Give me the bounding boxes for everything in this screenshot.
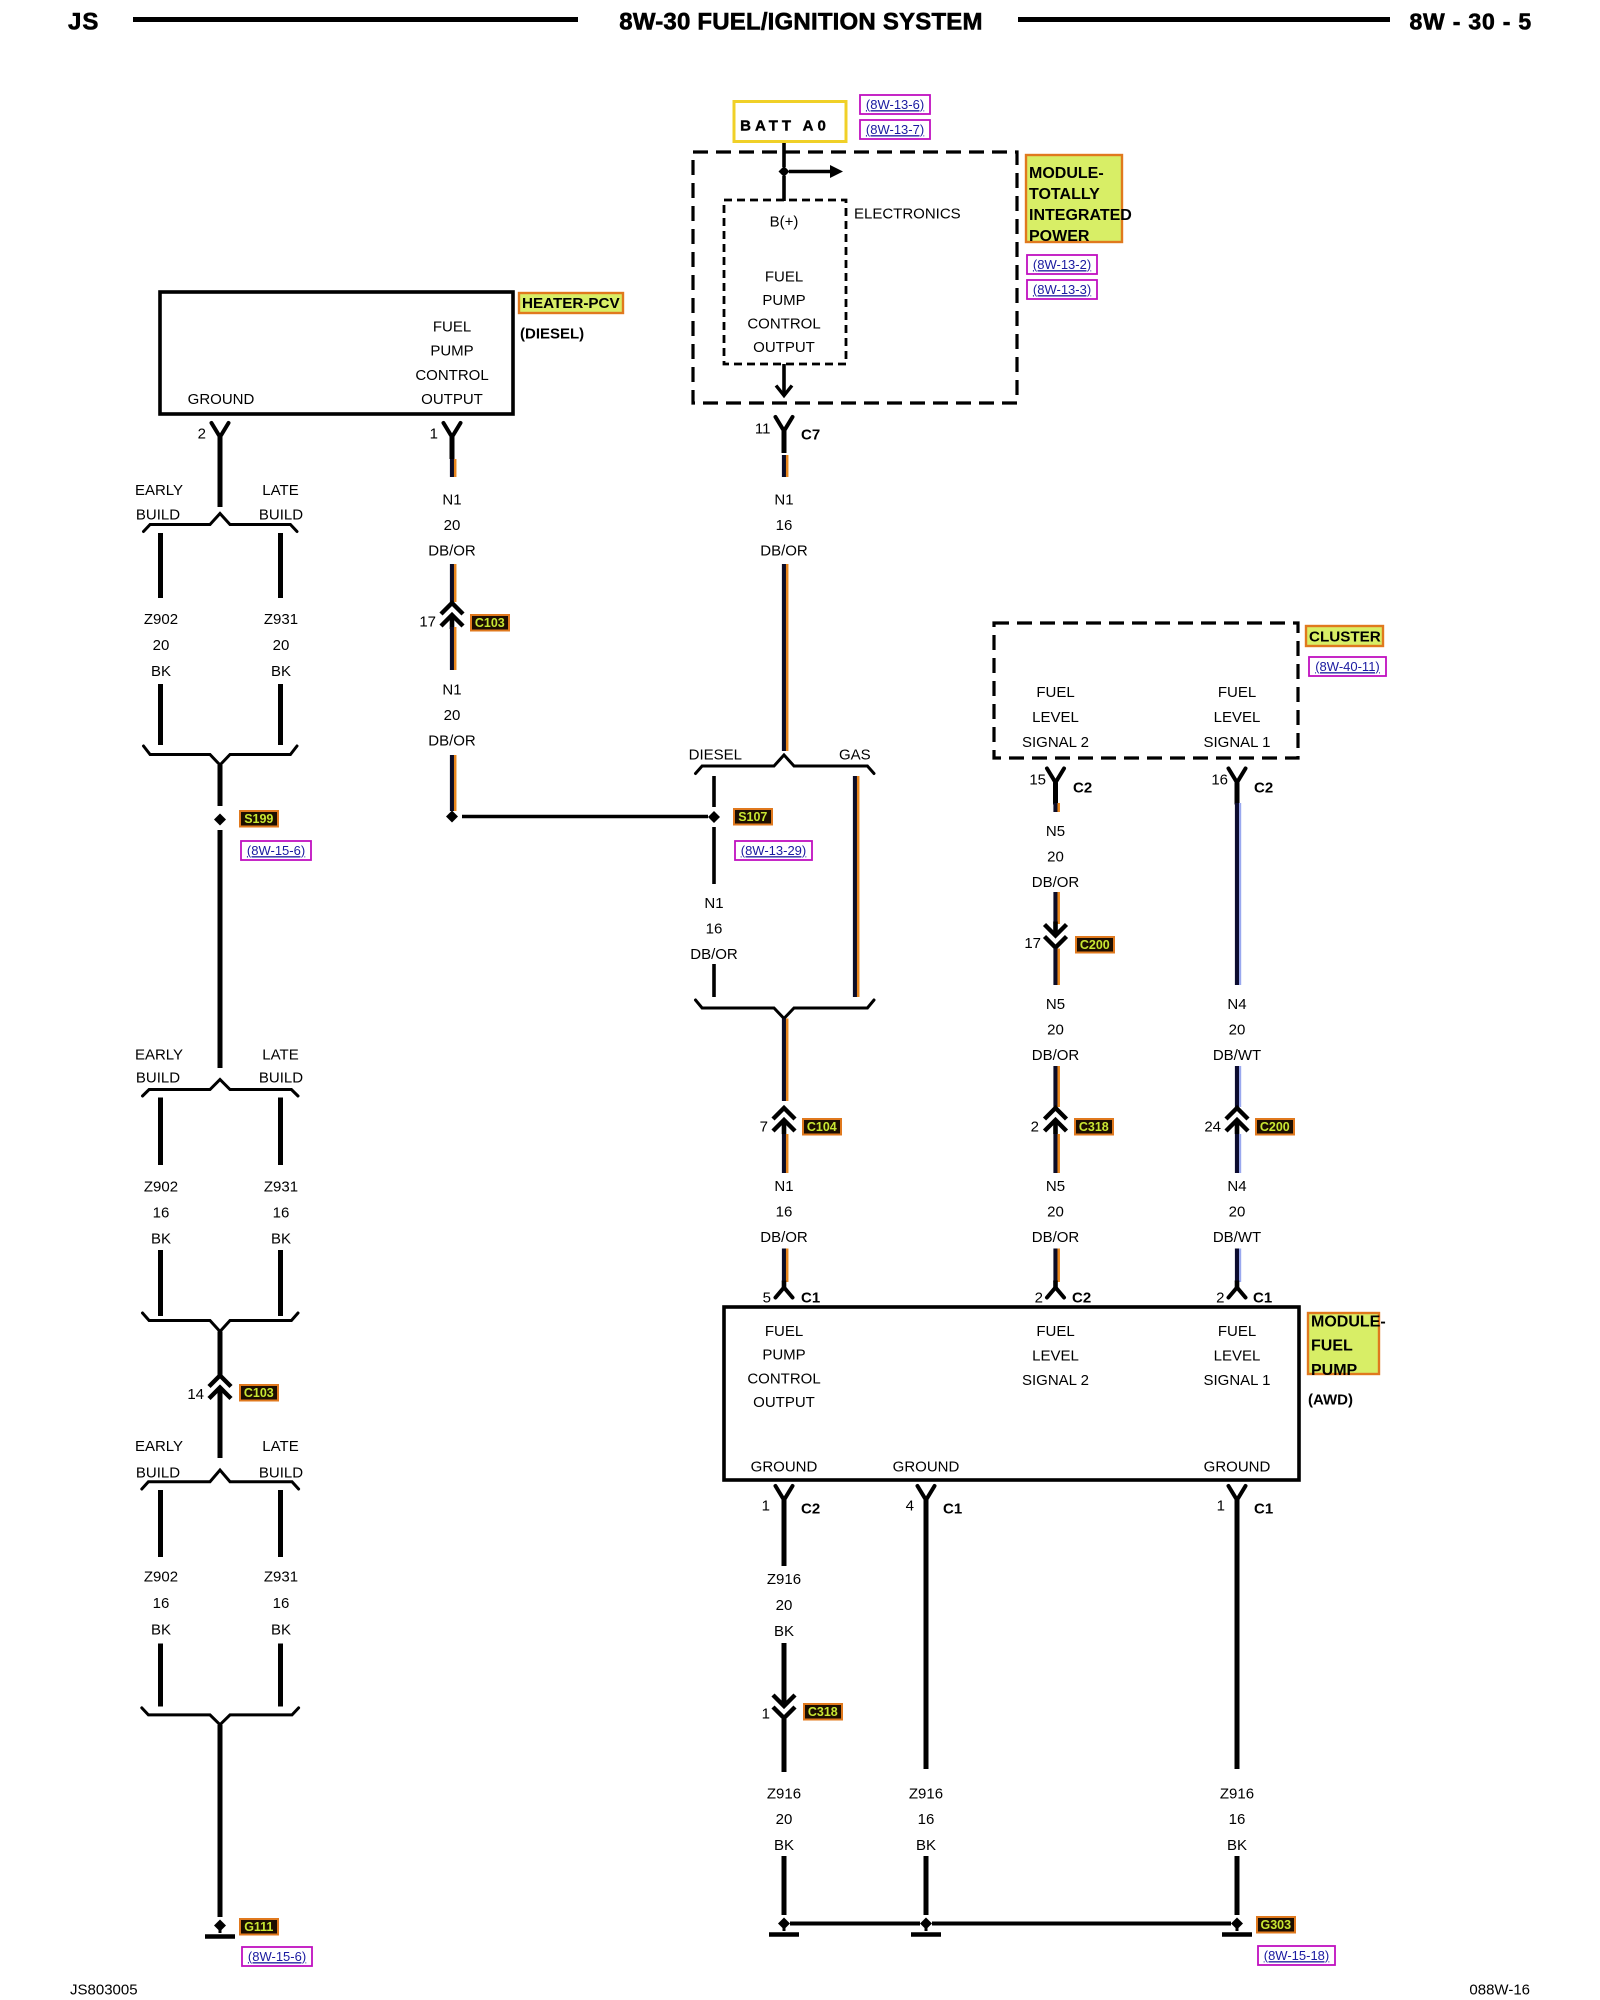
svg-text:DB/WT: DB/WT [1213,1229,1261,1246]
svg-text:GROUND: GROUND [751,1458,818,1475]
svg-text:BK: BK [271,663,291,680]
wire gas branch [853,776,857,997]
svg-text:16: 16 [1211,771,1228,788]
connector pin 2 C2 into fuel pump module [1047,1288,1064,1298]
wire merge to connector C104 [782,1019,786,1102]
svg-text:16: 16 [273,1595,290,1612]
svg-text:JS803005: JS803005 [70,1981,138,1998]
svg-text:SIGNAL 1: SIGNAL 1 [1204,1372,1271,1389]
svg-text:BK: BK [271,1622,291,1639]
svg-text:S199: S199 [244,812,273,826]
svg-text:LEVEL: LEVEL [1214,709,1261,726]
svg-text:7: 7 [760,1118,768,1135]
svg-text:24: 24 [1204,1118,1221,1135]
svg-text:11: 11 [755,420,771,437]
svg-text:1: 1 [762,1497,770,1514]
svg-text:16: 16 [706,921,723,938]
svg-text:4: 4 [906,1497,914,1514]
svg-text:JS: JS [68,9,99,36]
svg-text:DB/OR: DB/OR [1032,1047,1080,1064]
svg-text:N1: N1 [774,491,793,508]
svg-text:BUILD: BUILD [136,1070,180,1087]
wire merged ground to splice S199 [218,765,223,806]
svg-text:Z902: Z902 [144,1569,178,1586]
reference link (8W-13-29) [735,841,812,860]
svg-text:DB/OR: DB/OR [760,543,808,560]
svg-text:16: 16 [776,1204,793,1221]
svg-text:CLUSTER: CLUSTER [1309,629,1381,646]
svg-text:20: 20 [444,707,461,724]
svg-text:N4: N4 [1227,1178,1246,1195]
reference link (8W-13-2) [1027,255,1097,274]
svg-text:LEVEL: LEVEL [1032,1347,1079,1364]
inline connector 2 C318 [1045,1108,1067,1119]
svg-text:BK: BK [271,1230,291,1247]
svg-text:2: 2 [1035,1289,1043,1306]
svg-text:LEVEL: LEVEL [1214,1347,1261,1364]
wire N1 16 DB/OR to fuel pump module [782,1134,786,1173]
reference link (8W-15-18) [1258,1946,1335,1965]
svg-text:PUMP: PUMP [762,1347,805,1364]
svg-text:GROUND: GROUND [188,391,255,408]
svg-text:Z916: Z916 [909,1785,943,1802]
connector pin 5 C1 into fuel pump module [776,1288,793,1298]
label MODULE-TOTALLY INTEGRATED POWER [1026,155,1122,242]
svg-text:BUILD: BUILD [136,1465,180,1482]
svg-text:TOTALLY: TOTALLY [1029,186,1100,203]
svg-text:8W - 30 - 5: 8W - 30 - 5 [1409,8,1532,34]
svg-text:1: 1 [1217,1497,1225,1514]
svg-text:DIESEL: DIESEL [689,746,742,763]
svg-text:POWER: POWER [1029,228,1090,245]
wire diesel branch upper [712,776,716,807]
wire Z902 16 BK early branch (3) [158,1490,163,1557]
svg-text:(8W-15-6): (8W-15-6) [247,843,305,858]
svg-text:1: 1 [430,425,438,442]
arrow TIPM fuel pump control output [782,364,786,393]
wire Z931 20 BK late branch (1) [278,533,283,598]
svg-text:BK: BK [774,1837,794,1854]
svg-text:EARLY: EARLY [135,1046,183,1063]
svg-text:DB/OR: DB/OR [760,1229,808,1246]
svg-text:LATE: LATE [262,1046,298,1063]
wire merged ground to G111 [218,1725,223,1917]
svg-text:FUEL: FUEL [1218,1323,1256,1340]
inline connector 14 C103 [209,1376,231,1387]
connector pin 1 C1 module ground right [1229,1486,1246,1500]
splice node S107 [708,811,720,823]
label HEATER-PCV [519,293,623,313]
junction node battery feed [779,166,790,177]
svg-text:(8W-13-29): (8W-13-29) [741,843,807,858]
svg-text:SIGNAL 2: SIGNAL 2 [1022,1372,1089,1389]
wire N1 16 DB/OR from TIPM C7 [782,455,786,477]
wire Z916 16 BK from module pin 4 C1 [924,1502,929,1769]
svg-text:FUEL: FUEL [1036,684,1074,701]
svg-text:FUEL: FUEL [765,268,803,285]
svg-text:C200: C200 [1260,1120,1290,1134]
svg-text:B(+): B(+) [770,213,799,230]
inline connector 17 C103 [441,603,463,614]
TIPM electronics inner dashed box [724,200,846,364]
svg-text:FUEL: FUEL [1218,684,1256,701]
svg-text:EARLY: EARLY [135,1438,183,1455]
svg-text:OUTPUT: OUTPUT [753,339,815,356]
svg-text:C318: C318 [1079,1120,1109,1134]
inline connector 24 C200 [1226,1108,1248,1119]
ground symbol G111 [214,1920,226,1932]
svg-text:(8W-15-18): (8W-15-18) [1264,1948,1330,1963]
svg-text:(8W-13-6): (8W-13-6) [866,97,924,112]
split brace early/late build (1) [144,514,298,532]
ground bus wire [790,1922,920,1926]
svg-text:Z916: Z916 [1220,1785,1254,1802]
svg-text:C1: C1 [1253,1289,1272,1306]
svg-text:2: 2 [1031,1118,1039,1135]
reference link (8W-15-6) [241,841,311,860]
arrow branch feed to right [789,170,830,174]
reference link (8W-40-11) [1309,657,1386,676]
wire Z916 20 BK from module pin 1 C2 [782,1502,787,1566]
svg-text:C2: C2 [1073,779,1092,796]
svg-text:GAS: GAS [839,746,871,763]
svg-text:INTEGRATED: INTEGRATED [1029,207,1132,224]
svg-text:N1: N1 [442,491,461,508]
connector pin 1 heater-pcv output [444,423,461,437]
svg-text:17: 17 [419,613,436,630]
merge brace below diesel/gas [696,1000,875,1019]
svg-text:17: 17 [1024,935,1041,952]
reference link (8W-13-3) [1027,280,1097,299]
wire N5 20 DB/OR to module [1053,1134,1057,1173]
svg-text:DB/OR: DB/OR [1032,874,1080,891]
svg-text:BUILD: BUILD [136,506,180,523]
wire heater branch to splice S107 [462,815,708,819]
ground symbol G303 [1231,1918,1243,1930]
svg-text:DB/OR: DB/OR [428,543,476,560]
svg-text:C103: C103 [244,1386,274,1400]
svg-text:BK: BK [916,1837,936,1854]
svg-text:FUEL: FUEL [765,1323,803,1340]
wire N5 20 DB/OR below C200 [1053,949,1057,986]
svg-text:PUMP: PUMP [430,343,473,360]
svg-text:HEATER-PCV: HEATER-PCV [522,295,620,312]
svg-text:Z916: Z916 [767,1571,801,1588]
wire Z931 16 BK late branch (3) [278,1490,283,1557]
ground symbol left at bus [778,1918,790,1930]
split brace DIESEL / GAS [696,755,875,774]
component box HEATER-PCV (DIESEL) [160,292,513,414]
wire battery B+ feed into TIPM [782,143,786,167]
ground label G303 [1257,1917,1295,1933]
wire feed down to electronics B+ [782,176,786,201]
svg-text:BUILD: BUILD [259,506,303,523]
svg-text:N5: N5 [1046,1178,1065,1195]
svg-text:20: 20 [1047,1204,1064,1221]
svg-text:DB/WT: DB/WT [1213,1047,1261,1064]
svg-text:C104: C104 [807,1120,837,1134]
wire Z916 20 BK below C318 [782,1719,787,1772]
svg-text:GROUND: GROUND [893,1458,960,1475]
svg-text:OUTPUT: OUTPUT [421,391,483,408]
wire Z931 16 BK late branch (2) [278,1098,283,1166]
wire Z902 20 BK early branch (1) [158,533,163,598]
svg-text:MODULE-: MODULE- [1029,165,1104,182]
svg-text:(8W-40-11): (8W-40-11) [1315,659,1380,674]
svg-text:C7: C7 [801,426,820,443]
inline connector 1 C318 [773,1695,795,1706]
svg-text:20: 20 [1229,1204,1246,1221]
svg-text:MODULE-: MODULE- [1311,1313,1386,1330]
connector pin 4 C1 module ground middle [918,1486,935,1500]
svg-text:SIGNAL 1: SIGNAL 1 [1204,734,1271,751]
svg-text:Z916: Z916 [767,1785,801,1802]
svg-text:C200: C200 [1080,938,1110,952]
svg-text:C103: C103 [475,616,505,630]
svg-text:BK: BK [774,1623,794,1640]
svg-text:OUTPUT: OUTPUT [753,1394,815,1411]
wire N1 20 DB/OR from heater-pcv [450,459,454,477]
svg-text:BK: BK [1227,1837,1247,1854]
wire N5 20 DB/OR from cluster pin 15 [1053,803,1057,812]
label CLUSTER [1306,626,1383,646]
wire continues to diesel/gas split [782,564,786,751]
svg-text:Z931: Z931 [264,1569,298,1586]
svg-text:(8W-13-7): (8W-13-7) [866,122,924,137]
svg-text:N1: N1 [774,1178,793,1195]
svg-text:LEVEL: LEVEL [1032,709,1079,726]
svg-text:DB/OR: DB/OR [1032,1229,1080,1246]
svg-text:N5: N5 [1046,823,1065,840]
svg-text:PUMP: PUMP [762,292,805,309]
svg-text:20: 20 [1047,1022,1064,1039]
svg-text:1: 1 [762,1705,770,1722]
svg-text:20: 20 [1229,1022,1246,1039]
merge brace early/late build (3) [142,1708,299,1725]
svg-text:20: 20 [776,1811,793,1828]
svg-text:LATE: LATE [262,1438,298,1455]
svg-text:CONTROL: CONTROL [415,367,488,384]
svg-text:C318: C318 [808,1705,838,1719]
svg-text:BATT A0: BATT A0 [740,117,830,134]
svg-text:BUILD: BUILD [259,1465,303,1482]
wire Z916 16 BK from module pin 1 C1 [1235,1502,1240,1769]
svg-text:DB/OR: DB/OR [690,946,738,963]
connector pin 15 C2 cluster [1047,769,1064,783]
svg-text:16: 16 [1229,1811,1246,1828]
svg-text:Z931: Z931 [264,1178,298,1195]
svg-text:S107: S107 [738,810,767,824]
header rule left [133,17,578,22]
splice label S107 [734,809,772,825]
wire N1 20 DB/OR below C103 [450,627,454,670]
split brace early/late build (2) [143,1080,299,1097]
svg-text:20: 20 [153,637,170,654]
reference link (8W-13-7) [860,120,930,139]
svg-text:C1: C1 [801,1289,820,1306]
svg-text:C2: C2 [1072,1289,1091,1306]
svg-text:2: 2 [198,425,206,442]
ground label G111 [240,1919,278,1935]
svg-text:FUEL: FUEL [433,318,471,335]
connector pin 2 C1 into fuel pump module [1229,1288,1246,1298]
component CLUSTER dashed box [994,623,1298,758]
svg-text:20: 20 [1047,849,1064,866]
svg-text:DB/OR: DB/OR [428,733,476,750]
svg-text:5: 5 [763,1289,771,1306]
svg-text:BK: BK [151,663,171,680]
svg-text:C1: C1 [943,1500,962,1517]
wire N4 20 DB/WT from cluster pin 16 [1235,803,1239,985]
svg-text:16: 16 [153,1595,170,1612]
splice node S199 [214,814,226,826]
svg-text:CONTROL: CONTROL [747,316,820,333]
wire below C103 to third split [218,1389,223,1459]
svg-text:BUILD: BUILD [259,1070,303,1087]
connector pin 1 C2 module ground left [776,1486,793,1500]
svg-text:Z902: Z902 [144,1178,178,1195]
svg-text:G111: G111 [244,1920,273,1934]
svg-text:C1: C1 [1254,1500,1273,1517]
reference link (8W-15-6) at G111 [242,1947,312,1966]
connector pin 11 C7 [776,417,793,431]
svg-text:Z931: Z931 [264,611,298,628]
svg-text:(8W-13-2): (8W-13-2) [1033,257,1091,272]
battery feed box BATT A0 [734,102,846,142]
svg-text:BK: BK [151,1230,171,1247]
connector pin 16 C2 cluster [1229,769,1246,783]
svg-text:16: 16 [776,517,793,534]
svg-text:FUEL: FUEL [1311,1338,1353,1355]
svg-text:16: 16 [918,1811,935,1828]
svg-text:ELECTRONICS: ELECTRONICS [854,205,961,222]
svg-text:14: 14 [187,1386,204,1403]
svg-text:(AWD): (AWD) [1308,1391,1353,1408]
merge brace early/late build (1) [144,746,298,765]
svg-text:N1: N1 [442,681,461,698]
svg-text:BK: BK [151,1622,171,1639]
connector pin 2 heater-pcv ground [212,423,229,437]
wire S199 down to second split [218,830,223,1068]
svg-text:CONTROL: CONTROL [747,1370,820,1387]
svg-text:SIGNAL 2: SIGNAL 2 [1022,734,1089,751]
label MODULE-FUEL PUMP [1308,1313,1379,1374]
svg-text:20: 20 [776,1597,793,1614]
svg-text:LATE: LATE [262,482,298,499]
svg-text:N4: N4 [1227,996,1246,1013]
svg-text:(8W-15-6): (8W-15-6) [248,1949,306,1964]
svg-text:N5: N5 [1046,996,1065,1013]
wire from heater-pcv ground pin 2 [218,439,223,507]
wire merged to connector C103 [218,1332,223,1376]
junction node heater wire to S107 [446,811,458,823]
svg-text:EARLY: EARLY [135,482,183,499]
component box MODULE-FUEL PUMP [724,1307,1299,1480]
svg-text:G303: G303 [1261,1918,1292,1932]
svg-text:15: 15 [1029,771,1046,788]
svg-text:Z902: Z902 [144,611,178,628]
svg-text:16: 16 [273,1204,290,1221]
svg-text:2: 2 [1216,1289,1224,1306]
splice label S199 [240,811,278,827]
svg-text:(DIESEL): (DIESEL) [520,325,584,342]
split brace early/late build (3) [142,1470,299,1489]
header rule right [1018,17,1390,22]
module TIPM dashed outline [693,152,1017,403]
inline connector 7 C104 [773,1108,795,1119]
svg-text:8W-30 FUEL/IGNITION SYSTEM: 8W-30 FUEL/IGNITION SYSTEM [619,9,982,36]
inline connector 17 C200 [1045,925,1067,936]
svg-text:N1: N1 [704,895,723,912]
wire N4 20 DB/WT to module [1235,1134,1239,1173]
ground symbol middle at bus [920,1918,932,1930]
svg-text:16: 16 [153,1204,170,1221]
svg-text:20: 20 [444,517,461,534]
merge brace early/late build (2) [143,1313,299,1332]
svg-text:20: 20 [273,637,290,654]
wire Z902 16 BK early branch (2) [158,1098,163,1166]
svg-text:GROUND: GROUND [1204,1458,1271,1475]
wire diesel branch to merge [712,827,716,884]
svg-text:C2: C2 [1254,779,1273,796]
svg-text:FUEL: FUEL [1036,1323,1074,1340]
svg-text:(8W-13-3): (8W-13-3) [1033,282,1091,297]
svg-text:PUMP: PUMP [1311,1362,1358,1379]
svg-text:C2: C2 [801,1500,820,1517]
reference link (8W-13-6) [860,95,930,114]
svg-text:088W-16: 088W-16 [1469,1981,1530,1998]
